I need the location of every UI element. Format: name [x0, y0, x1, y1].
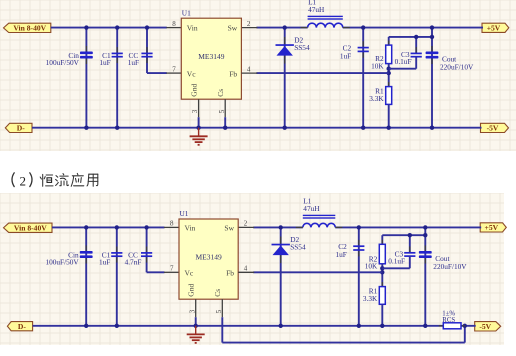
svg-text:0.1uF: 0.1uF: [395, 57, 412, 66]
label D2 (circuit 2): [290, 235, 299, 244]
junction Cin bottom (circuit 2): [84, 324, 88, 328]
svg-text:Gnd: Gnd: [187, 284, 196, 297]
svg-text:Vin 8-40V: Vin 8-40V: [13, 23, 46, 32]
wire R2 top to Cout vertical (circuit 2): [382, 234, 425, 236]
pin 5 stub U1 (circuit 2): [221, 299, 223, 317]
svg-text:Vin: Vin: [185, 223, 196, 232]
pin number 3 (circuit 1): [191, 109, 199, 113]
svg-text:Vin 8-40V: Vin 8-40V: [14, 223, 47, 232]
pin name Sw (circuit 1): [228, 24, 238, 33]
wire C3 top lead (circuit 1): [415, 37, 417, 54]
wire C3 bottom lead (circuit 2): [409, 256, 411, 268]
pin name Cs (circuit 2): [213, 289, 222, 297]
wire +5V rail L1 to +5V port (circuit 1): [343, 27, 483, 29]
junction pin3 ground (circuit 2): [194, 324, 198, 328]
value 1uF C1 (circuit 1): [99, 58, 110, 67]
svg-text:D-: D-: [17, 124, 25, 133]
wire CC to Vc pin7 (circuit 2): [147, 271, 165, 273]
pin 7 stub U1 (circuit 1): [166, 72, 181, 74]
junction Fb divider (circuit 1): [387, 71, 391, 75]
value SS54 (circuit 1): [294, 43, 310, 52]
pin name Vc (circuit 1): [187, 69, 196, 78]
value 1uF C2 (circuit 2): [335, 250, 346, 259]
resistor RCS (circuit 2): [439, 323, 465, 329]
junction Cout top (circuit 2): [423, 225, 427, 229]
wire Cin lead (circuit 2): [85, 227, 87, 325]
svg-text:7: 7: [172, 65, 176, 73]
svg-text:Fb: Fb: [226, 269, 234, 278]
svg-text:8: 8: [170, 220, 174, 228]
svg-text:4: 4: [244, 265, 248, 273]
junction D2 top (circuit 1): [283, 25, 287, 29]
wire C1 lead (circuit 2): [116, 227, 118, 325]
inductor L1 (circuit 1): [301, 16, 350, 28]
ground (circuit 1): [190, 128, 208, 145]
label Cin (circuit 1): [68, 51, 79, 60]
svg-text:Cs: Cs: [213, 289, 222, 297]
label R1 (circuit 1): [375, 87, 384, 96]
junction R1 bottom (circuit 1): [387, 126, 391, 130]
pin 2 stub U1 (circuit 2): [238, 226, 254, 228]
capacitor CC (circuit 2): [141, 247, 152, 263]
pin name Gnd (circuit 1): [189, 84, 198, 97]
svg-text:2: 2: [247, 20, 251, 28]
wire R2 bottom lead (circuit 1): [388, 64, 390, 87]
tolerance 1% RCS (circuit 2): [442, 310, 455, 317]
value 220uF/10V (circuit 2): [433, 262, 467, 271]
junction C3 top (circuit 1): [414, 35, 418, 39]
pin number 2 (circuit 1): [247, 20, 251, 28]
pin number 3 (circuit 2): [188, 309, 196, 313]
svg-text:+5V: +5V: [487, 23, 501, 32]
pin 8 stub U1 (circuit 2): [164, 226, 179, 228]
junction C1 bottom (circuit 2): [115, 324, 119, 328]
capacitor Cout (circuit 2): [419, 245, 432, 263]
wire bottom rail D- to -5V (circuit 1): [32, 127, 482, 129]
label C3 (circuit 2): [395, 250, 404, 259]
pin number 7 (circuit 2): [170, 265, 174, 273]
value 1uF C2 (circuit 1): [340, 51, 351, 60]
value 10K (circuit 1): [371, 61, 384, 70]
label C1 (circuit 2): [102, 250, 111, 259]
junction D2 bottom (circuit 2): [279, 324, 283, 328]
wire pin3 to rail (circuit 2): [195, 317, 197, 326]
wire R2 top to Cout vertical (circuit 1): [389, 36, 432, 38]
wire CC lead vertical (circuit 1): [146, 28, 148, 74]
pin name Fb (circuit 2): [226, 269, 234, 278]
wire R2 top lead (circuit 2): [381, 235, 383, 244]
designator U1 (circuit 1): [182, 8, 191, 17]
pin name Cs (circuit 1): [216, 89, 225, 97]
svg-text:SS54: SS54: [294, 43, 310, 52]
junction Cout bottom (circuit 1): [430, 126, 434, 130]
value 47uH (circuit 1): [308, 5, 325, 14]
designator L1 (circuit 1): [308, 0, 316, 7]
schematic panel 2 background: [0, 193, 504, 345]
svg-text:+5V: +5V: [485, 223, 499, 232]
pin name Vin (circuit 2): [185, 223, 196, 232]
wire C3 to R2 lead (circuit 2): [382, 267, 410, 269]
port -5V (circuit 2): [475, 322, 501, 331]
junction D2 top (circuit 2): [279, 225, 283, 229]
junction C2 top (circuit 1): [361, 25, 365, 29]
wire pin5 to rail (circuit 1): [224, 117, 226, 128]
wire R2 top lead (circuit 1): [388, 37, 390, 45]
pin number 7 (circuit 1): [172, 65, 176, 73]
inductor L1 (circuit 2): [296, 215, 343, 228]
junction Fb divider (circuit 2): [380, 270, 384, 274]
wire R1 bottom lead (circuit 1): [388, 104, 390, 127]
svg-text:ME3149: ME3149: [198, 52, 225, 61]
junction C3 bottom at R2 (circuit 1): [387, 67, 391, 71]
junction C2 bottom (circuit 1): [361, 126, 365, 130]
wire C3 to R2 lead (circuit 1): [389, 68, 417, 70]
label D2 (circuit 1): [294, 36, 303, 45]
schematic panel 1 background: [0, 0, 516, 151]
junction pin3 ground (circuit 1): [196, 126, 200, 130]
wire +5V rail L1 to +5V port (circuit 2): [335, 226, 481, 228]
value CC (circuit 2): [125, 257, 142, 266]
wire Fb to divider (circuit 2): [253, 271, 382, 273]
svg-text:Sw: Sw: [228, 24, 238, 33]
label R2 (circuit 2): [369, 254, 378, 263]
wire Cout lead (circuit 1): [431, 28, 433, 128]
pin 5 stub U1 (circuit 1): [224, 99, 226, 117]
wire top rail Vin to pin8 (circuit 2): [52, 226, 165, 228]
pin number 8 (circuit 2): [170, 220, 174, 228]
wire bottom rail D- to -5V (circuit 2): [33, 325, 476, 327]
svg-text:ME3149: ME3149: [195, 253, 222, 262]
label Cin (circuit 2): [68, 250, 79, 259]
svg-text:Gnd: Gnd: [189, 84, 198, 97]
svg-text:220uF/10V: 220uF/10V: [440, 63, 474, 72]
svg-text:3.3K: 3.3K: [363, 294, 378, 303]
wire R1 bottom lead (circuit 2): [381, 304, 383, 326]
wire C3 top lead (circuit 2): [409, 235, 411, 253]
svg-text:Fb: Fb: [229, 69, 237, 78]
svg-text:3.3K: 3.3K: [369, 94, 384, 103]
svg-text:7: 7: [170, 265, 174, 273]
svg-text:10K: 10K: [365, 262, 378, 271]
diode D2 SS54 (circuit 2): [272, 237, 290, 264]
capacitor C1 (circuit 2): [111, 247, 122, 263]
pin number 4 (circuit 1): [247, 65, 251, 73]
label Cout (circuit 2): [435, 254, 449, 263]
wire top rail Vin to pin8 (circuit 1): [51, 27, 167, 29]
wire pin3 to rail (circuit 1): [198, 117, 200, 128]
label R1 (circuit 2): [369, 287, 378, 296]
resistor R1 3.3K (circuit 1): [386, 82, 392, 109]
svg-text:-5V: -5V: [487, 124, 499, 133]
resistor R2 10K (circuit 1): [386, 41, 392, 69]
svg-text:8: 8: [172, 20, 176, 28]
svg-text:1uF: 1uF: [335, 250, 346, 259]
value 100uF/50V Cin (circuit 1): [46, 58, 80, 67]
value 220uF/10V (circuit 1): [440, 63, 474, 72]
wire C3 bottom lead (circuit 1): [415, 57, 417, 69]
label C2 (circuit 1): [343, 43, 352, 52]
label ME3149 (circuit 2): [195, 253, 222, 262]
junction pin5 (circuit 1): [223, 126, 227, 130]
capacitor C1 (circuit 1): [112, 47, 123, 63]
pin 3 stub U1 (circuit 1): [198, 99, 200, 117]
wire Fb to divider (circuit 1): [256, 72, 388, 74]
pin name Vin (circuit 1): [187, 24, 198, 33]
junction R1 bottom (circuit 2): [380, 324, 384, 328]
wire Cs route bottom (circuit 2): [222, 342, 464, 344]
wire CC to Vc pin7 (circuit 1): [147, 72, 167, 74]
port D- (circuit 2): [7, 322, 32, 331]
svg-text:SS54: SS54: [290, 243, 306, 252]
caption (2) heng liu ying yong: [12, 173, 98, 189]
junction C3 bottom at R2 (circuit 2): [380, 266, 384, 270]
svg-text:2: 2: [244, 220, 248, 228]
capacitor Cin (circuit 1): [80, 46, 93, 64]
junction C1 top (circuit 1): [115, 25, 119, 29]
value 1uF C1 (circuit 2): [99, 257, 110, 266]
wire C1 lead (circuit 1): [116, 28, 118, 128]
pin 3 stub U1 (circuit 2): [195, 299, 197, 317]
junction C2 bottom (circuit 2): [357, 324, 361, 328]
junction Cin bottom (circuit 1): [84, 126, 88, 130]
svg-text:Vin: Vin: [187, 24, 198, 33]
junction Cin top (circuit 2): [84, 225, 88, 229]
capacitor C2 (circuit 2): [353, 240, 364, 257]
pin name Vc (circuit 2): [185, 269, 194, 278]
svg-text:1uF: 1uF: [340, 51, 351, 60]
value 3.3K (circuit 2): [363, 294, 378, 303]
label C2 (circuit 2): [338, 242, 347, 251]
junction Cin top (circuit 1): [84, 25, 88, 29]
svg-text:47uH: 47uH: [308, 5, 325, 14]
junction C1 top (circuit 2): [115, 225, 119, 229]
pin 8 stub U1 (circuit 1): [166, 27, 181, 29]
value 100uF/50V Cin (circuit 2): [45, 257, 79, 266]
pin number 5 (circuit 1): [218, 109, 226, 113]
wire Cs route up to RCS (circuit 2): [464, 326, 466, 343]
value SS54 (circuit 2): [290, 243, 306, 252]
diode D2 SS54 (circuit 1): [276, 37, 294, 64]
wire Cout lead (circuit 2): [424, 227, 426, 325]
svg-text:4: 4: [247, 65, 251, 73]
label C1 (circuit 1): [102, 51, 111, 60]
svg-text:Vc: Vc: [185, 269, 194, 278]
pin number 2 (circuit 2): [244, 220, 248, 228]
wire Sw node pin2 to L1 (circuit 2): [253, 226, 303, 228]
capacitor C3 (circuit 2): [404, 246, 415, 262]
wire D2 lead (circuit 2): [280, 227, 282, 325]
wire CC lead vertical (circuit 2): [146, 227, 148, 272]
capacitor Cout (circuit 1): [426, 46, 439, 64]
svg-text:U1: U1: [180, 209, 189, 218]
wire C2 lead (circuit 2): [358, 227, 360, 325]
svg-text:Sw: Sw: [224, 223, 234, 232]
value 0.1uF C3 (circuit 2): [388, 257, 405, 266]
label ME3149 (circuit 1): [198, 52, 225, 61]
svg-text:RCS: RCS: [442, 317, 455, 324]
resistor R1 3.3K (circuit 2): [379, 282, 385, 309]
designator U1 (circuit 2): [180, 209, 189, 218]
port D- (circuit 1): [5, 123, 32, 132]
port -5V (circuit 1): [481, 123, 509, 132]
port Vin 8-40V (circuit 2): [4, 223, 53, 232]
ground (circuit 2): [187, 326, 205, 343]
svg-text:U1: U1: [182, 8, 191, 17]
pin number 8 (circuit 1): [172, 20, 176, 28]
junction Cout sub (circuit 1): [430, 35, 434, 39]
pin 4 stub U1 (circuit 2): [238, 271, 254, 273]
junction D2 bottom (circuit 1): [283, 126, 287, 130]
svg-text:2: 2: [20, 174, 27, 189]
wire C2 lead (circuit 1): [362, 28, 364, 128]
wire R2 bottom lead (circuit 2): [381, 264, 383, 287]
junction C1 bottom (circuit 1): [115, 126, 119, 130]
svg-text:10K: 10K: [371, 61, 384, 70]
label R2 (circuit 1): [375, 54, 384, 63]
label RCS (circuit 2): [442, 317, 455, 324]
pin 2 stub U1 (circuit 1): [241, 27, 257, 29]
op-amp U1 ME3149 body (circuit 1): [181, 18, 241, 99]
svg-text:100uF/50V: 100uF/50V: [46, 58, 80, 67]
designator L1 (circuit 2): [303, 197, 311, 206]
label CC (circuit 2): [128, 250, 138, 259]
junction CC top (circuit 2): [144, 225, 148, 229]
svg-text:D-: D-: [18, 322, 26, 331]
pin 7 stub U1 (circuit 2): [164, 271, 179, 273]
label CC (circuit 1): [129, 51, 139, 60]
resistor R2 10K (circuit 2): [379, 240, 385, 268]
svg-text:220uF/10V: 220uF/10V: [433, 262, 467, 271]
value 10K (circuit 2): [365, 262, 378, 271]
value 0.1uF C3 (circuit 1): [395, 57, 412, 66]
value 47uH (circuit 2): [303, 204, 320, 213]
pin number 5 (circuit 2): [215, 309, 223, 313]
junction Cout sub (circuit 2): [423, 233, 427, 237]
pin name Fb (circuit 1): [229, 69, 237, 78]
svg-text:0.1uF: 0.1uF: [388, 257, 405, 266]
capacitor Cin (circuit 2): [80, 245, 93, 263]
wire D2 lead (circuit 1): [284, 28, 286, 128]
junction Cout bottom (circuit 2): [423, 324, 427, 328]
op-amp U1 ME3149 body (circuit 2): [179, 219, 238, 299]
svg-text:100uF/50V: 100uF/50V: [45, 257, 79, 266]
pin name Sw (circuit 2): [224, 223, 234, 232]
junction RCS right (circuit 2): [463, 324, 467, 328]
label C3 (circuit 1): [401, 50, 410, 59]
pin name Gnd (circuit 2): [187, 284, 196, 297]
svg-text:Vc: Vc: [187, 69, 196, 78]
svg-text:-5V: -5V: [479, 322, 491, 331]
svg-text:1uF: 1uF: [99, 257, 110, 266]
port +5V (circuit 1): [482, 23, 509, 32]
junction C2 top (circuit 2): [357, 225, 361, 229]
junction CC top (circuit 1): [145, 25, 149, 29]
pin number 4 (circuit 2): [244, 265, 248, 273]
svg-text:1uF: 1uF: [128, 58, 139, 67]
value 3.3K (circuit 1): [369, 94, 384, 103]
junction Cout top (circuit 1): [430, 25, 434, 29]
svg-text:47uH: 47uH: [303, 204, 320, 213]
svg-text:4.7nF: 4.7nF: [125, 257, 142, 266]
capacitor C2 (circuit 1): [358, 41, 369, 58]
capacitor C3 (circuit 1): [411, 47, 422, 63]
capacitor CC (circuit 1): [141, 47, 152, 63]
pin 4 stub U1 (circuit 1): [241, 72, 257, 74]
junction C3 top (circuit 2): [408, 233, 412, 237]
svg-text:Cs: Cs: [216, 89, 225, 97]
wire pin5 down (circuit 2): [221, 317, 223, 342]
port Vin 8-40V (circuit 1): [4, 23, 51, 32]
wire Sw node pin2 to L1 (circuit 1): [256, 27, 307, 29]
label Cout (circuit 1): [442, 55, 456, 64]
value CC (circuit 1): [128, 58, 139, 67]
wire Cin lead (circuit 1): [85, 28, 87, 128]
port +5V (circuit 2): [480, 223, 506, 232]
svg-text:1uF: 1uF: [99, 58, 110, 67]
